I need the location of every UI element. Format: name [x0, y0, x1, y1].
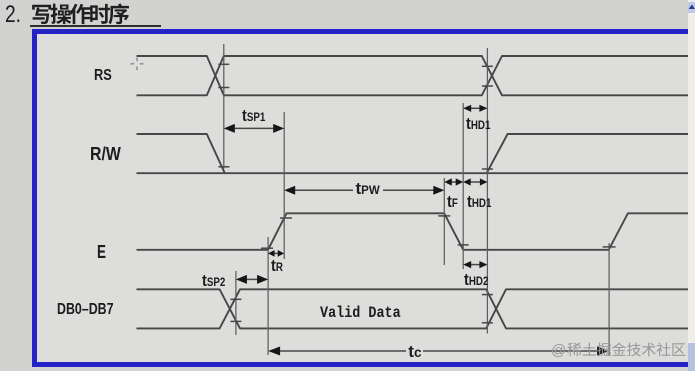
tick E rise2 bottom	[603, 246, 616, 248]
mouse crosshair cursor	[131, 58, 144, 71]
label tPW	[353, 180, 383, 198]
signal R/W rising edge and trailing high segment	[487, 134, 689, 173]
tick E rise1 top	[280, 217, 292, 219]
marker vertical V6 at E fall bottom	[462, 103, 464, 269]
label tc	[406, 343, 423, 360]
tick R/W fall bottom	[218, 166, 229, 168]
label tHD2	[464, 271, 488, 289]
watermark hanzi 稀土掘金技术社区	[567, 342, 685, 356]
scrollbar up button	[688, 2, 695, 13]
tick RS crossover2 low	[482, 85, 493, 87]
tick DB crossover1 high	[230, 298, 241, 300]
signal DB0-DB7 upper trace	[137, 289, 690, 328]
signal DB0-DB7 lower trace	[137, 289, 690, 328]
tick E rise1 bottom	[261, 247, 273, 249]
scrollbar track	[688, 0, 695, 371]
label RS	[94, 68, 112, 84]
label tF	[447, 193, 458, 211]
arrow tHD1 lower	[463, 178, 487, 185]
tick RS crossover2 high	[482, 65, 493, 67]
marker vertical V1 at RS first crossover / R-W fall	[223, 44, 225, 169]
label tHD1 upper	[466, 115, 490, 133]
signal E waveform (low, pulse high, low, rises again)	[137, 213, 690, 250]
signal RS lower trace	[137, 56, 690, 95]
tick RS crossover1 high	[218, 63, 229, 65]
label E	[97, 243, 106, 261]
arrow tR	[268, 250, 284, 257]
arrow tc	[268, 347, 609, 356]
marker vertical V5 at RS second crossover	[486, 48, 488, 334]
tick E fall top	[438, 215, 450, 217]
label tHD1 lower	[467, 193, 491, 211]
tick DB crossover1 low	[230, 320, 241, 322]
label tR	[271, 257, 283, 275]
label tSP1	[242, 107, 265, 125]
label Valid Data	[320, 305, 401, 321]
label tSP2	[202, 272, 225, 290]
arrow tF	[444, 178, 463, 185]
marker vertical V2 at E rise top	[283, 112, 285, 259]
arrow tSP1	[224, 124, 284, 133]
label DB0-DB7	[57, 302, 114, 318]
tick E fall bottom	[458, 244, 469, 246]
title number 2.	[5, 3, 21, 27]
arrow tSP2	[236, 275, 268, 284]
tick RS crossover1 low	[218, 87, 229, 89]
tick DB crossover2 low	[482, 322, 493, 324]
arrow tPW	[284, 186, 444, 195]
tick DB crossover2 high	[482, 294, 493, 296]
scrollbar bottom thumb	[688, 343, 695, 371]
signal RS upper trace (high, falls at first crossover, rises back at second)	[137, 56, 690, 95]
marker vertical V4 at DB crossover	[235, 271, 237, 335]
title text 写操作时序	[32, 3, 129, 24]
signal R/W low baseline (full width)	[137, 172, 690, 174]
tick R/W rise bottom	[482, 168, 493, 170]
arrow tHD2	[463, 261, 487, 268]
marker vertical V8 at E second rise	[608, 243, 610, 356]
signal R/W high segment with falling edge	[137, 134, 225, 173]
marker vertical V7 at E fall top	[443, 178, 445, 265]
arrow tHD1 upper	[463, 105, 487, 112]
title underline	[30, 25, 161, 27]
marker vertical V3 at E rise start down to tc arrow	[267, 237, 269, 355]
label R/W	[90, 145, 121, 163]
watermark @ sign	[551, 343, 566, 358]
